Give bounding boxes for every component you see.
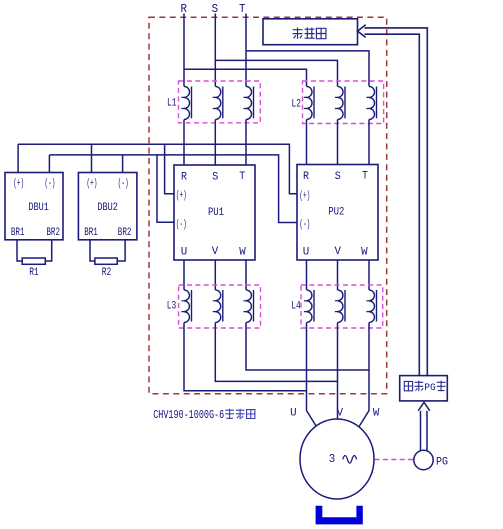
wire motor W lead: [359, 323, 370, 428]
svg-text:BR1: BR1: [11, 227, 25, 239]
wire T branch to L2: [246, 51, 369, 87]
wire DC bus minus: [49, 155, 297, 223]
svg-text:V: V: [334, 246, 341, 258]
inductor L3 dashed box: [179, 285, 261, 328]
motor M1: [300, 419, 374, 499]
svg-text:L3: L3: [167, 301, 177, 313]
inductor L3 coil a: [181, 290, 191, 323]
svg-text:R1: R1: [29, 267, 39, 279]
svg-text:T: T: [239, 2, 246, 16]
wire DBU1 BR2 lead: [45, 240, 51, 261]
inductor L4 coil c: [366, 290, 376, 323]
svg-text:CHV190-1000G-6: CHV190-1000G-6: [153, 409, 224, 422]
wire PU1 W to L3: [245, 260, 247, 290]
inductor L1 dashed box: [179, 81, 261, 123]
inductor L3 coil b: [213, 290, 223, 323]
wire PU1 U output merge: [184, 323, 307, 391]
svg-text:PG: PG: [436, 456, 448, 468]
wire S main: [214, 14, 216, 87]
svg-text:T: T: [362, 171, 368, 183]
svg-text:R: R: [181, 2, 188, 16]
svg-text:S: S: [212, 2, 219, 16]
brake unit DBU2: [78, 173, 136, 240]
wire PU2 U to L4: [306, 260, 308, 290]
inductor L2 coil b: [335, 86, 345, 119]
svg-text:(+): (+): [87, 178, 98, 190]
svg-text:PU1: PU1: [208, 207, 224, 219]
svg-text:W: W: [239, 246, 246, 258]
wire L1a to PU1 R: [183, 120, 185, 166]
wire R main: [183, 14, 185, 87]
wire DBU2 minus lead: [122, 155, 124, 173]
svg-text:PG: PG: [424, 383, 436, 394]
inductor L1 coil a: [181, 86, 191, 119]
svg-text:S: S: [212, 171, 218, 183]
svg-text:(+): (+): [176, 190, 187, 202]
svg-text:R: R: [303, 171, 309, 183]
wire L1c to PU1 T: [245, 120, 247, 166]
inductor L4 coil b: [335, 290, 345, 323]
encoder PG circle: [414, 450, 433, 469]
svg-text:(-): (-): [45, 178, 56, 190]
control board box 控制板: [263, 19, 358, 45]
wire motor U lead: [307, 323, 318, 428]
power unit PU1: [174, 165, 255, 260]
wire PU1 W output merge: [246, 323, 369, 371]
svg-text:S: S: [335, 171, 341, 183]
svg-text:V: V: [337, 408, 344, 420]
power unit PU2: [297, 165, 378, 261]
wire PU1 U to L3: [183, 260, 185, 290]
inductor L2 dashed box: [303, 81, 384, 124]
wire PU2 V to L4: [337, 260, 339, 290]
arrow cable PG to PG card: [418, 402, 430, 450]
svg-text:U: U: [303, 246, 310, 258]
inductor L1 coil b: [213, 86, 223, 119]
wire PU1 V output merge: [215, 323, 337, 382]
wire DBU2 BR1 lead: [90, 240, 95, 261]
inductor L2 coil c: [366, 86, 376, 119]
svg-text:L1: L1: [167, 97, 177, 109]
wire L2b to PU2 S: [337, 120, 339, 165]
wire PU2 W to L4: [368, 260, 370, 290]
resistor R1: [22, 258, 45, 264]
svg-text:(-): (-): [118, 178, 129, 190]
svg-text:R: R: [181, 171, 187, 183]
inductor L2 coil a: [304, 86, 314, 119]
svg-text:R2: R2: [102, 267, 112, 279]
wire L2a to PU2 R: [306, 120, 308, 165]
svg-text:U: U: [181, 246, 188, 258]
wire PU1 minus tap: [157, 155, 174, 222]
svg-text:V: V: [212, 246, 219, 258]
wire DBU1 BR1 lead: [17, 240, 22, 261]
svg-text:DBU1: DBU1: [28, 202, 49, 214]
label 变频器: [225, 409, 255, 419]
brake unit DBU1: [5, 173, 63, 240]
svg-text:T: T: [239, 171, 245, 183]
svg-text:BR2: BR2: [46, 227, 60, 239]
wire T main: [245, 14, 247, 87]
wire R branch to L2: [184, 69, 307, 86]
svg-text:BR2: BR2: [118, 227, 132, 239]
inductor L1 coil c: [243, 86, 253, 119]
wire L1b to PU1 S: [214, 120, 216, 166]
svg-text:(-): (-): [176, 219, 187, 231]
wire PU1 V to L3: [214, 260, 216, 290]
wire L2c to PU2 T: [368, 120, 370, 165]
wire motor V lead: [337, 323, 339, 421]
inductor L3 coil c: [243, 290, 253, 323]
inverter enclosure dashed box: [149, 17, 387, 394]
svg-text:U: U: [290, 408, 297, 420]
resistor R2: [95, 258, 117, 264]
dashed shaft link motor to PG: [375, 459, 414, 461]
sync PG card box 同步PG卡: [400, 376, 448, 401]
wire S branch to L2: [215, 60, 337, 86]
svg-text:3: 3: [329, 452, 336, 466]
svg-text:(-): (-): [299, 219, 310, 231]
wire DBU1 plus lead: [17, 144, 19, 172]
svg-text:L4: L4: [291, 301, 301, 313]
svg-text:PU2: PU2: [328, 207, 344, 219]
wire DBU2 BR2 lead: [117, 240, 125, 261]
wire PU1 plus tap: [165, 144, 174, 194]
svg-text:W: W: [373, 408, 380, 420]
inductor L4 coil a: [304, 290, 314, 323]
arrow cable from PG card to control board: [358, 25, 428, 376]
svg-text:(+): (+): [299, 190, 310, 202]
wire DC bus plus: [18, 144, 297, 194]
wire DBU1 minus lead: [48, 155, 50, 173]
inductor L4 dashed box: [301, 285, 383, 328]
svg-text:L2: L2: [292, 99, 302, 111]
svg-text:W: W: [361, 246, 368, 258]
wire DBU2 plus lead: [91, 144, 93, 172]
svg-text:BR1: BR1: [84, 227, 98, 239]
svg-text:DBU2: DBU2: [97, 202, 118, 214]
svg-text:(+): (+): [13, 178, 24, 190]
motor mount bracket: [316, 506, 363, 525]
